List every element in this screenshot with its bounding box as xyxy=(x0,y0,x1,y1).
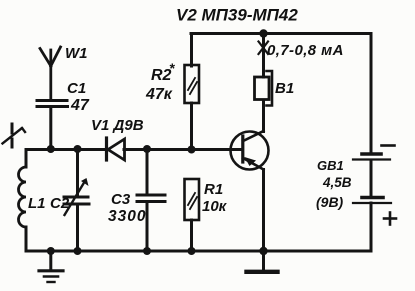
earphone B1 xyxy=(255,71,273,106)
wire R2 top lead xyxy=(190,34,193,67)
antenna W1 xyxy=(40,47,61,99)
wire main horizontal: diode to base xyxy=(124,148,242,151)
wire bottom horizontal bus xyxy=(26,250,371,253)
node emitter junction on bottom wire xyxy=(259,247,267,255)
wire top horizontal bus xyxy=(191,32,371,35)
svg-text:C2: C2 xyxy=(50,195,70,212)
node R1 junction on bottom wire xyxy=(188,247,196,255)
node top wire junction xyxy=(259,29,267,37)
adjustment mark (antenna trimming arrow) xyxy=(3,124,26,147)
svg-text:*: * xyxy=(169,60,175,76)
node C3 junction on bottom wire xyxy=(143,247,151,255)
svg-text:В1: В1 xyxy=(275,80,294,97)
svg-text:V1 Д9В: V1 Д9В xyxy=(91,117,144,134)
node C2 junction on main wire xyxy=(74,145,82,153)
svg-text:10к: 10к xyxy=(202,198,228,215)
svg-text:C1: C1 xyxy=(67,80,86,97)
svg-text:47к: 47к xyxy=(145,86,173,103)
svg-text:V2 МП39-МП42: V2 МП39-МП42 xyxy=(176,6,298,25)
capacitor C2 variable xyxy=(64,149,89,251)
node C2 junction on bottom wire xyxy=(74,247,82,255)
svg-text:47: 47 xyxy=(70,97,90,114)
wire R2 bottom lead xyxy=(190,103,193,150)
svg-text:3300: 3300 xyxy=(108,208,146,225)
wire R1 bottom lead xyxy=(190,220,193,251)
node C1 junction on main wire xyxy=(47,145,55,153)
capacitor C1 xyxy=(37,101,68,150)
node R2/R1 junction on main wire xyxy=(188,146,196,154)
wire main horizontal: tank to diode xyxy=(26,148,105,151)
node C3 junction on main wire xyxy=(143,145,151,153)
capacitor C3 xyxy=(137,149,165,251)
inductor L1 xyxy=(19,150,26,252)
svg-text:GB1: GB1 xyxy=(317,158,344,173)
ground chassis (emitter) xyxy=(247,251,278,272)
label battery plus xyxy=(384,213,396,225)
wire collector lead up to B1 xyxy=(262,100,265,132)
svg-text:C3: C3 xyxy=(111,191,131,208)
resistor R2 xyxy=(185,65,200,103)
svg-text:4,5В: 4,5В xyxy=(322,175,352,190)
wire B1 top lead xyxy=(262,34,265,78)
wire right vertical (bottom) xyxy=(370,203,373,251)
resistor R1 xyxy=(185,179,200,220)
diode V1 xyxy=(107,138,125,160)
wire emitter lead down xyxy=(262,170,265,252)
svg-text:0,7-0,8 мА: 0,7-0,8 мА xyxy=(267,42,344,59)
svg-text:W1: W1 xyxy=(65,45,88,62)
svg-text:R1: R1 xyxy=(204,181,223,198)
label battery minus xyxy=(382,144,395,147)
transistor V2 xyxy=(231,131,269,170)
break mark X (current test point) xyxy=(259,42,269,55)
ground earth (left) xyxy=(39,251,63,282)
wire right vertical (top) xyxy=(370,34,373,154)
battery GB1 xyxy=(353,154,391,203)
svg-text:(9В): (9В) xyxy=(316,194,344,210)
svg-text:L1: L1 xyxy=(28,195,46,212)
node ground junction on bottom wire xyxy=(47,247,55,255)
